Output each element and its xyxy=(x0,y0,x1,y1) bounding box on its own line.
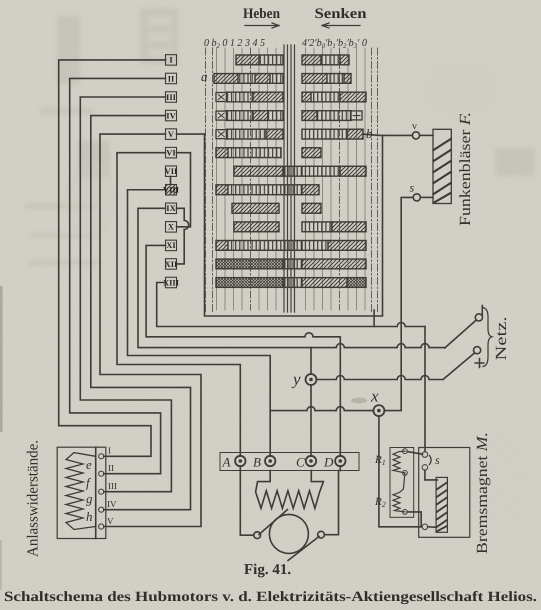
plus terminal circle xyxy=(474,347,481,354)
right brush circle xyxy=(318,531,325,538)
resistor box R1 R2 xyxy=(390,448,414,518)
svg-text:C: C xyxy=(296,455,305,470)
row IV bar left xyxy=(227,111,254,121)
finger box V xyxy=(166,129,177,140)
svg-text:4′2′b0′b1′b2′b3′ 0: 4′2′b0′b1′b2′b3′ 0 xyxy=(302,38,368,50)
row III bar left xyxy=(227,92,254,102)
terminal I xyxy=(99,454,104,459)
row III x-box xyxy=(216,93,227,102)
svg-text:Schaltschema des Hubmotors v.: Schaltschema des Hubmotors v. d. Elektri… xyxy=(4,589,537,605)
plus switch blade xyxy=(443,353,475,380)
minus sign (rotated) xyxy=(481,306,483,316)
row XIII long bar xyxy=(216,278,283,288)
svg-text:Funkenbläser F.: Funkenbläser F. xyxy=(457,112,474,226)
svg-text:I: I xyxy=(108,446,111,456)
wire finger XI to motor terminal D xyxy=(146,245,340,456)
finger box IV xyxy=(166,110,177,121)
wire terminal x to spark blower s wire xyxy=(384,201,401,411)
minus terminal circle xyxy=(475,314,482,321)
terminal x xyxy=(373,405,384,416)
terminal board xyxy=(220,453,359,471)
row IX bar left xyxy=(232,203,279,213)
brake magnet branch vertical xyxy=(424,327,426,452)
svg-text:II: II xyxy=(108,463,114,473)
row III bar right xyxy=(302,92,311,102)
terminal D xyxy=(335,456,345,466)
minus switch blade xyxy=(445,320,477,348)
svg-text:III: III xyxy=(166,92,177,102)
svg-text:X: X xyxy=(168,222,175,232)
row IV x-box xyxy=(216,111,227,120)
svg-text:XI: XI xyxy=(166,240,176,250)
R1 zigzag xyxy=(393,451,405,473)
row I bar left xyxy=(214,55,366,287)
resistor box xyxy=(57,447,106,538)
drum position guide lines (right half, thin) xyxy=(306,48,366,310)
svg-text:II: II xyxy=(168,73,175,83)
svg-text:0 b2 0 1 2 3 4 5: 0 b2 0 1 2 3 4 5 xyxy=(204,38,265,50)
wire finger V to drum frame xyxy=(177,133,205,135)
row I bar right xyxy=(302,55,321,65)
finger box X xyxy=(166,222,177,233)
row VI bar right xyxy=(302,148,321,158)
svg-text:Bremsmagnet M.: Bremsmagnet M. xyxy=(474,432,491,554)
riser from minus rail to terminal y xyxy=(310,348,312,374)
wire D to right brush xyxy=(325,466,341,535)
row X bar left xyxy=(234,222,279,232)
svg-text:a: a xyxy=(201,69,208,84)
left brush circle xyxy=(254,532,261,539)
wire finger IX to switch arm (minus) with hops xyxy=(138,208,445,347)
wire finger III to resistance terminal III xyxy=(80,97,171,492)
row X bar right xyxy=(302,222,332,232)
svg-text:h: h xyxy=(86,509,93,524)
wire finger VI to finger X xyxy=(177,153,191,227)
terminal s circle xyxy=(413,194,420,201)
svg-text:XII: XII xyxy=(165,259,178,269)
terminal y xyxy=(306,374,317,385)
svg-text:x: x xyxy=(370,387,379,406)
R2 bottom terminal xyxy=(403,510,408,515)
row VIII long bar xyxy=(216,185,228,195)
row a bar right xyxy=(302,74,327,84)
finger box II xyxy=(166,73,177,84)
row IV bar right xyxy=(302,111,317,121)
finger box XI xyxy=(166,240,177,251)
wire finger IX to finger XII with hop xyxy=(177,208,189,264)
svg-text:V: V xyxy=(107,516,114,526)
finger box VI xyxy=(166,147,177,158)
wire v to coil xyxy=(420,134,433,136)
svg-text:B: B xyxy=(253,455,261,470)
svg-text:V: V xyxy=(168,129,175,139)
svg-text:D: D xyxy=(323,455,334,470)
terminal IV xyxy=(99,507,104,512)
finger box III xyxy=(166,92,177,103)
svg-text:IX: IX xyxy=(166,203,176,213)
svg-text:Heben: Heben xyxy=(243,6,280,22)
stub from drum edge to finger XIII rail xyxy=(373,310,375,327)
svg-text:Senken: Senken xyxy=(315,6,367,22)
finger box I xyxy=(166,55,177,66)
arrow Heben xyxy=(245,23,279,28)
terminal strip divider xyxy=(95,447,97,538)
wire finger VI to motor terminal A xyxy=(117,153,240,456)
finger box VIII xyxy=(166,185,177,196)
terminal II xyxy=(99,471,104,476)
svg-text:s: s xyxy=(410,181,415,195)
arrow Senken xyxy=(322,23,360,28)
row a bar left xyxy=(214,74,238,84)
svg-text:e: e xyxy=(86,457,92,472)
wire s to vertical xyxy=(401,197,413,201)
svg-text:b: b xyxy=(366,126,373,141)
svg-text:XIII: XIII xyxy=(163,277,180,287)
row VI bar left xyxy=(216,148,228,158)
finger box XIII xyxy=(166,277,177,288)
wire contact to coil top xyxy=(425,470,438,480)
armature circle xyxy=(269,514,308,553)
row XII long bar xyxy=(216,259,283,269)
brace for Netz xyxy=(483,308,492,367)
svg-text:A: A xyxy=(222,455,231,470)
terminal B xyxy=(265,456,275,466)
contact arc xyxy=(430,456,432,465)
brake coil body xyxy=(436,477,447,532)
svg-text:Netz.: Netz. xyxy=(493,317,510,361)
wire finger I to resistance terminal I xyxy=(59,60,166,456)
brush stroke left xyxy=(259,510,288,535)
row XI long bar xyxy=(216,241,228,251)
x mark row V xyxy=(216,130,227,139)
terminal A xyxy=(235,456,245,466)
row V x-box xyxy=(216,130,227,139)
wire bottom terminal to coil xyxy=(428,526,436,529)
wire finger IV to resistance terminal IV xyxy=(91,116,191,510)
finger numerals xyxy=(163,55,180,288)
x mark row IV xyxy=(216,111,227,120)
terminal V xyxy=(99,524,104,529)
rail terminal x to motor terminal B with hops xyxy=(270,407,373,411)
plus sign (rotated) xyxy=(475,359,484,368)
svg-text:VI: VI xyxy=(166,147,176,157)
svg-text:IV: IV xyxy=(107,499,117,509)
wire drum row b to terminal v xyxy=(363,134,412,135)
finger box IX xyxy=(166,203,177,214)
wire A to left brush xyxy=(240,466,253,535)
resistor zigzag e f g h xyxy=(66,453,96,530)
field winding (shunt) zigzag xyxy=(256,471,324,509)
wire finger XIII to brake magnet branch xyxy=(157,283,425,327)
terminal v circle xyxy=(412,132,419,139)
wire terminal x down to brake magnet xyxy=(379,416,422,527)
dash-dot boundary lines of drum development xyxy=(206,48,378,312)
row V bar right (b) xyxy=(302,129,347,139)
wire R2 bottom to bottom node xyxy=(407,512,421,527)
brush stroke right xyxy=(288,537,319,561)
finger box XII xyxy=(166,259,177,270)
svg-text:IV: IV xyxy=(166,110,176,120)
wire finger VII to finger VIII xyxy=(170,176,172,184)
svg-text:III: III xyxy=(108,481,117,491)
row V bar left xyxy=(227,129,267,139)
plus mark row IV xyxy=(351,111,362,120)
row IX bar right xyxy=(302,203,321,213)
spark blower coil windings xyxy=(434,139,451,203)
brake coil windings xyxy=(437,483,447,532)
bottom terminal circle xyxy=(422,524,428,530)
R1 top terminal xyxy=(403,449,408,454)
wire terminal y down to motor terminal C xyxy=(310,385,312,456)
svg-text:g: g xyxy=(86,491,93,506)
svg-text:VII: VII xyxy=(165,166,178,176)
terminal III xyxy=(99,489,104,494)
drum frame wire (V to v) xyxy=(205,134,383,316)
wire finger VIII to motor terminal B xyxy=(128,190,271,456)
drum shaft xyxy=(284,45,295,312)
contact lower circle xyxy=(422,465,428,471)
x mark row III xyxy=(216,93,227,102)
drum position guide lines (left half, thin) xyxy=(217,48,277,310)
contact upper circle xyxy=(422,452,428,458)
terminal C xyxy=(306,456,316,466)
svg-text:Fig. 41.: Fig. 41. xyxy=(244,562,291,578)
row VII long bar xyxy=(234,166,283,176)
brake magnet box xyxy=(419,448,470,538)
svg-text:s: s xyxy=(435,453,440,467)
rail terminal y to plus switch arm with hops xyxy=(316,376,443,380)
wire finger II to resistance terminal II xyxy=(70,78,166,473)
spark blower coil F body xyxy=(433,129,451,203)
svg-text:Anlasswiderstände.: Anlasswiderstände. xyxy=(25,440,42,557)
svg-text:y: y xyxy=(291,370,301,389)
finger box VII xyxy=(166,166,177,177)
svg-text:VIII: VIII xyxy=(163,185,180,195)
wire R1 top to contact xyxy=(407,452,422,455)
R2 zigzag xyxy=(393,473,405,512)
svg-text:v: v xyxy=(412,121,417,132)
wire s to coil bottom xyxy=(420,196,433,198)
row IV plus-box xyxy=(351,111,362,120)
R mid terminal xyxy=(403,471,408,476)
wire finger V to resistance terminal V xyxy=(100,134,201,526)
